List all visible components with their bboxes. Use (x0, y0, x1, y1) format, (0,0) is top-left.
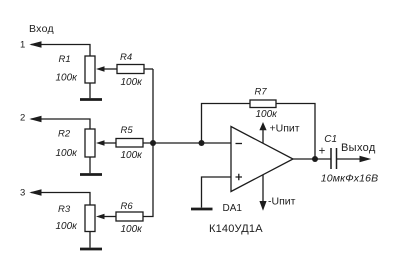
svg-text:R4: R4 (120, 52, 132, 63)
C1 polarity plus (319, 146, 326, 158)
R2 value 100к (56, 148, 79, 159)
svg-text:+Uпит: +Uпит (270, 123, 300, 135)
-Uпит arrow (259, 175, 266, 211)
svg-text:Вход: Вход (29, 23, 54, 35)
svg-text:100к: 100к (121, 150, 144, 161)
junction bus/main (150, 140, 156, 146)
wire wiper3 to R6 (104, 216, 117, 218)
wire feedback right and down to output (276, 104, 315, 160)
wire R3 bottom to ground (89, 232, 91, 248)
wire summing bus vertical (143, 69, 153, 217)
svg-text:2: 2 (20, 112, 25, 123)
resistor R5 (116, 139, 143, 148)
svg-text:100к: 100к (121, 77, 144, 88)
R6 label (121, 201, 134, 212)
R1 wiper arrow (96, 66, 105, 71)
op-amp DA1 triangle (231, 127, 293, 192)
wire main to op-amp inverting input (143, 142, 231, 144)
R7 value 100к (256, 109, 279, 120)
node 2 label (20, 112, 25, 123)
ground at non-inverting input (191, 208, 213, 211)
svg-text:DA1: DA1 (223, 203, 243, 214)
capacitor C1 plates (331, 148, 337, 169)
wire R4 right to bus (144, 68, 153, 70)
input 3 arrow (29, 189, 41, 196)
R1 label (59, 54, 71, 65)
minus sign inverting input (236, 143, 243, 145)
ground under R3 (80, 248, 102, 251)
К140УД1А label (209, 223, 263, 235)
resistor R3 (potentiometer) (85, 205, 95, 232)
svg-text:100к: 100к (56, 148, 79, 159)
R3 value 100к (56, 221, 79, 232)
wire wiper2 to R5 (104, 142, 117, 144)
node 1 label (20, 39, 25, 50)
resistor R4 (117, 65, 144, 74)
svg-text:+: + (319, 146, 326, 158)
R6 value 100к (121, 224, 144, 235)
svg-text:R5: R5 (121, 125, 134, 136)
plus sign non-inverting input (236, 174, 243, 181)
wire input3 to R3 top (31, 193, 90, 206)
svg-text:К140УД1А: К140УД1А (209, 223, 263, 235)
svg-text:R2: R2 (58, 129, 71, 140)
svg-text:R6: R6 (121, 201, 134, 212)
wire non-inverting input to ground (202, 177, 232, 208)
svg-text:100к: 100к (256, 109, 279, 120)
resistor R2 (potentiometer) (85, 129, 95, 157)
svg-text:R3: R3 (58, 204, 71, 215)
resistor R7 (250, 100, 276, 108)
wire op-amp output (293, 158, 331, 160)
R2 wiper arrow (96, 140, 105, 145)
junction output (312, 156, 318, 162)
svg-text:C1: C1 (324, 134, 337, 145)
C1 value 10мкФх16В (321, 172, 378, 184)
junction feedback/main (199, 140, 205, 146)
wire feedback up (202, 104, 251, 144)
svg-text:-Uпит: -Uпит (268, 196, 296, 208)
svg-text:Выход: Выход (341, 142, 376, 154)
R5 value 100к (121, 150, 144, 161)
svg-text:10мкФх16В: 10мкФх16В (321, 172, 378, 184)
wire input2 to R2 top (31, 119, 90, 129)
output arrow (360, 156, 372, 163)
ground under R1 (80, 98, 102, 101)
label Вход (29, 23, 54, 35)
svg-text:100к: 100к (121, 224, 144, 235)
R2 label (58, 129, 71, 140)
R3 label (58, 204, 71, 215)
R1 value 100к (56, 73, 79, 84)
input 1 arrow (29, 41, 41, 48)
wire C1 to output arrow (337, 158, 362, 160)
ground under R2 (80, 173, 102, 176)
svg-text:R1: R1 (59, 54, 71, 65)
R5 label (121, 125, 134, 136)
DA1 label (223, 203, 243, 214)
node 3 label (20, 187, 25, 198)
resistor R6 (116, 212, 143, 221)
+Uпит arrow (259, 122, 266, 143)
+Uпит label (270, 123, 300, 135)
wire R1 bottom to ground (89, 83, 91, 98)
svg-text:3: 3 (20, 187, 25, 198)
svg-text:1: 1 (20, 39, 25, 50)
R4 value 100к (121, 77, 144, 88)
resistor R1 (potentiometer) (85, 56, 95, 83)
svg-text:100к: 100к (56, 221, 79, 232)
R4 label (120, 52, 132, 63)
C1 label (324, 134, 337, 145)
-Uпит label (268, 196, 296, 208)
wire R2 bottom to ground (89, 157, 91, 173)
R3 wiper arrow (96, 214, 105, 219)
wire input1 to R1 top (31, 45, 90, 57)
wire wiper1 to R4 (104, 68, 118, 70)
input 2 arrow (29, 116, 41, 123)
svg-text:R7: R7 (255, 87, 268, 98)
R7 label (255, 87, 268, 98)
label Выход (341, 142, 376, 154)
svg-text:100к: 100к (56, 73, 79, 84)
